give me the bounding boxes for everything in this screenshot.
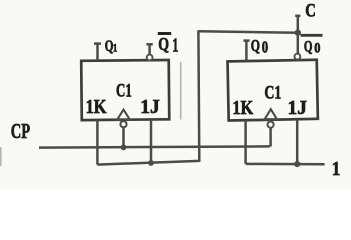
svg-text:Q: Q xyxy=(158,34,169,54)
svg-text:0: 0 xyxy=(314,40,320,56)
svg-text:1K: 1K xyxy=(232,97,253,119)
clock triangle U2 xyxy=(265,109,277,119)
flip-flop U1 box xyxy=(81,60,169,120)
wire clock U1 xyxy=(122,127,125,148)
svg-text:C1: C1 xyxy=(116,81,132,102)
wire net C vertical (to Q0bar bubble) xyxy=(295,16,300,54)
wire J input U2 xyxy=(296,120,299,164)
bubble Q0bar xyxy=(295,54,301,60)
wire K input U2 xyxy=(244,120,247,164)
clock triangle U1 xyxy=(117,110,129,120)
wire Q1bar output stub with bubble xyxy=(146,44,152,55)
svg-text:CP: CP xyxy=(11,119,30,143)
wire CP line xyxy=(39,146,270,147)
svg-text:1: 1 xyxy=(172,36,178,57)
junction dot C net xyxy=(295,29,301,35)
label Q0bar xyxy=(301,35,323,56)
label Q1bar xyxy=(158,34,179,57)
wire J input U1 xyxy=(150,120,153,164)
flip-flop U2 box xyxy=(228,60,318,121)
wire Q1 output stub xyxy=(94,43,101,60)
wire bottom-left bus xyxy=(97,161,199,165)
wire top feedback horizontal xyxy=(198,31,297,33)
svg-text:1J: 1J xyxy=(140,96,159,118)
junction dot J0 xyxy=(294,161,300,167)
svg-text:Q: Q xyxy=(251,36,260,55)
scan artifact faint vertical line xyxy=(180,62,182,120)
clock bubble U1 xyxy=(120,121,126,127)
svg-text:C: C xyxy=(305,1,316,22)
wire clock U2 xyxy=(269,127,272,146)
svg-text:1K: 1K xyxy=(86,96,107,118)
label Q0 xyxy=(251,36,268,57)
wire K input U1 xyxy=(96,120,99,165)
wire bottom-right bus xyxy=(246,163,325,166)
wire feedback vertical xyxy=(197,30,200,162)
svg-text:1: 1 xyxy=(113,43,118,55)
wire Q0 output stub xyxy=(243,40,249,61)
clock bubble U2 xyxy=(268,122,274,128)
bubble Q1bar xyxy=(147,55,153,61)
svg-text:1J: 1J xyxy=(288,97,307,119)
junction dot CP clock U1 xyxy=(121,144,127,150)
label Q1 xyxy=(105,38,118,55)
svg-text:C1: C1 xyxy=(264,82,281,103)
svg-text:Q: Q xyxy=(304,38,313,55)
junction dot J1 xyxy=(148,160,154,166)
scan artifact left edge smudge xyxy=(0,147,2,166)
svg-text:0: 0 xyxy=(262,38,268,57)
svg-text:1: 1 xyxy=(332,159,341,180)
